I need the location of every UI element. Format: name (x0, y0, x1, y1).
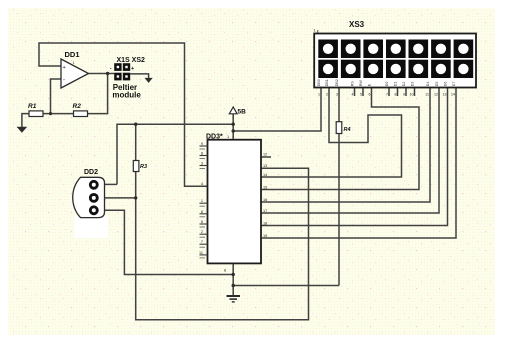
svg-text:10: 10 (410, 92, 414, 96)
wire: DD2 top pin (104, 183, 118, 185)
svg-text:+: + (131, 66, 134, 72)
wire: DD3 pin 12 stub (261, 156, 271, 158)
svg-text:9: 9 (403, 92, 405, 96)
svg-text:DD2: DD2 (84, 169, 98, 176)
wire: R3 bottom through DD2 node down to bottom bus (136, 168, 309, 320)
IC DD3 (206, 134, 261, 264)
svg-text:13: 13 (443, 92, 447, 96)
svg-text:17: 17 (263, 209, 267, 213)
node: op-amp output junction (106, 72, 109, 75)
wire: left ground branch with R1 R2 ladder (22, 114, 29, 127)
wire: op-amp non-inverting input loop to DD3 left pin (39, 43, 208, 186)
wire: op-amp output to X1S XS2 (89, 73, 115, 75)
svg-text:5B: 5B (238, 108, 247, 115)
resistor R3 (133, 161, 147, 172)
wire: XS3 riser 5 (261, 86, 448, 226)
svg-text:XS3: XS3 (349, 20, 365, 29)
svg-text:11: 11 (425, 92, 429, 96)
wire: +5 rail from X1S corner to 5B node (117, 124, 233, 184)
svg-text:7: 7 (201, 240, 203, 244)
svg-text:18: 18 (263, 221, 267, 225)
node: 5B lower (232, 129, 235, 132)
svg-text:6: 6 (201, 210, 203, 214)
wire: XS3 pin 10 stub (414, 86, 416, 97)
svg-text:DB1: DB1 (325, 79, 329, 86)
svg-text:X1S XS2: X1S XS2 (117, 57, 146, 64)
svg-text:2: 2 (201, 230, 203, 234)
op-amp DD1 (61, 50, 89, 88)
XS3 stub pin numbers (318, 92, 455, 96)
svg-text:3: 3 (336, 92, 338, 96)
svg-text:R3: R3 (140, 164, 147, 170)
wire: XS3 pin 9 stub (405, 86, 407, 97)
wire: DD2 middle pin to R3 node (104, 197, 136, 199)
XS3 contact squares (318, 40, 473, 79)
DD3 left pin numbers (199, 142, 203, 255)
svg-text:8: 8 (201, 152, 203, 156)
wire: XS3 pin 8 stub (397, 86, 399, 97)
wire: 5B node to XS3 pin stub (233, 86, 321, 132)
resistor R1 (28, 103, 43, 117)
svg-text:14: 14 (263, 173, 267, 177)
svg-text:D5: D5 (435, 82, 439, 87)
svg-text:14: 14 (451, 92, 455, 96)
svg-text:5: 5 (201, 220, 203, 224)
resistor R4 (336, 122, 350, 134)
ground arrow left (17, 127, 28, 133)
node: DD2 middle / R3 (134, 196, 137, 199)
svg-text:11: 11 (199, 251, 203, 255)
svg-text:+: + (63, 65, 66, 71)
svg-text:D6: D6 (443, 82, 447, 87)
svg-text:15: 15 (263, 185, 267, 189)
node: inverting input / R1 R2 (49, 112, 52, 115)
svg-text:D3: D3 (410, 82, 414, 87)
svg-text:D1: D1 (393, 82, 397, 87)
svg-text:DD3*: DD3* (206, 134, 223, 141)
wire: XS3 pin 4 stub (354, 86, 356, 97)
svg-text:module: module (112, 91, 141, 100)
svg-text:D0: D0 (385, 82, 389, 87)
connector X1S XS2 Peltier module (110, 57, 145, 100)
XS3 pin name strip (317, 79, 456, 86)
wire: 5B node down into DD3 pin 1 (232, 114, 234, 140)
svg-text:R4: R4 (344, 127, 351, 133)
wire: XS3 riser 3 (261, 86, 430, 203)
svg-text:D7: D7 (452, 82, 456, 87)
wire: XS3 riser 4 (261, 86, 439, 214)
svg-text:DD1: DD1 (65, 50, 80, 59)
svg-text:8: 8 (395, 92, 397, 96)
ground arrow at X1S XS2 (145, 78, 153, 83)
sensor DD2 (73, 169, 108, 238)
wire: XS3 riser 6 (261, 86, 456, 239)
svg-text:19: 19 (263, 234, 267, 238)
wire: R3 top to +5 rail (135, 124, 137, 160)
wire: X1S XS2 to right arrow ground (130, 74, 148, 79)
svg-text:D4: D4 (426, 82, 430, 87)
svg-text:-: - (110, 66, 112, 72)
node: DD3 ground upper (232, 273, 235, 276)
svg-text:13: 13 (263, 164, 267, 168)
svg-text:9: 9 (201, 142, 203, 146)
svg-text:6: 6 (369, 92, 371, 96)
svg-text:4: 4 (201, 182, 203, 186)
wire: XS3 pin 5 stub (362, 86, 364, 97)
node: 5B on +5 rail (232, 123, 235, 126)
svg-text:RS: RS (350, 81, 354, 87)
wire (338, 134, 340, 286)
wire (43, 113, 74, 115)
svg-text:R1: R1 (28, 103, 37, 110)
wire: XS3 pin 7 stub (388, 86, 390, 97)
svg-text:3: 3 (201, 162, 203, 166)
svg-text:12: 12 (434, 92, 438, 96)
DD3 left pin name ticks (200, 149, 206, 258)
svg-text:8: 8 (224, 269, 226, 273)
svg-text:16: 16 (263, 198, 267, 202)
svg-text:R2: R2 (73, 103, 82, 110)
DD3 right pin numbers (263, 153, 267, 238)
wire: op-amp inverting input to R1/R2 node (51, 79, 62, 114)
svg-text:DB2: DB2 (335, 79, 339, 86)
resistor R2 (73, 103, 88, 117)
svg-text:RW: RW (359, 80, 363, 87)
wire: XS3 stub jog A to DD3 right pin (261, 86, 402, 178)
svg-text:4: 4 (352, 92, 354, 96)
svg-text:1: 1 (201, 199, 203, 203)
wire: R4 vertical branch (338, 86, 340, 122)
svg-text:7: 7 (386, 92, 388, 96)
DD3 left pin stubs (200, 146, 208, 255)
wire: ground net to R4 bottom (233, 285, 339, 287)
svg-text:DB0: DB0 (317, 79, 321, 86)
svg-text:D2: D2 (402, 82, 406, 87)
node: DD3 ground lower (232, 284, 235, 287)
svg-text:-: - (63, 78, 65, 84)
svg-text:1: 1 (318, 92, 320, 96)
wire: DD3 bottom pin to ground (232, 263, 234, 296)
junction dots (49, 72, 235, 287)
svg-text:5: 5 (360, 92, 362, 96)
wire: DD2 bottom pin to DD3 ground node (104, 210, 234, 274)
svg-text:12: 12 (263, 153, 267, 157)
ground symbol under DD3 (227, 296, 241, 302)
wire: XS3 stub jog B to DD3 right pin (261, 86, 419, 190)
power symbol 5B (229, 107, 246, 115)
node: R3 top on +5 rail (134, 123, 137, 126)
wire: R2 to op-amp output node (87, 74, 108, 114)
svg-text:1: 1 (227, 135, 229, 139)
svg-text:2: 2 (326, 92, 328, 96)
connector XS3 (314, 20, 477, 88)
